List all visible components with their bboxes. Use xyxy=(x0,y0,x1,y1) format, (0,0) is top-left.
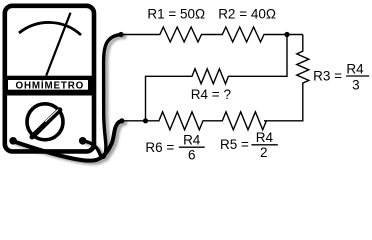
svg-text:R4: R4 xyxy=(256,130,274,145)
svg-text:R4 = ?: R4 = ? xyxy=(191,87,231,102)
svg-text:R2 = 40Ω: R2 = 40Ω xyxy=(218,6,276,21)
svg-text:R5 =: R5 = xyxy=(220,137,249,152)
svg-text:R6 =: R6 = xyxy=(145,140,174,155)
svg-text:3: 3 xyxy=(352,77,360,92)
svg-text:R1 = 50Ω: R1 = 50Ω xyxy=(147,6,205,21)
svg-text:R4: R4 xyxy=(346,62,364,77)
svg-text:OHMÍMETRO: OHMÍMETRO xyxy=(15,79,84,91)
svg-text:6: 6 xyxy=(188,147,196,162)
svg-text:R3 =: R3 = xyxy=(313,68,342,83)
svg-text:2: 2 xyxy=(260,145,268,160)
svg-text:R4: R4 xyxy=(183,133,201,148)
